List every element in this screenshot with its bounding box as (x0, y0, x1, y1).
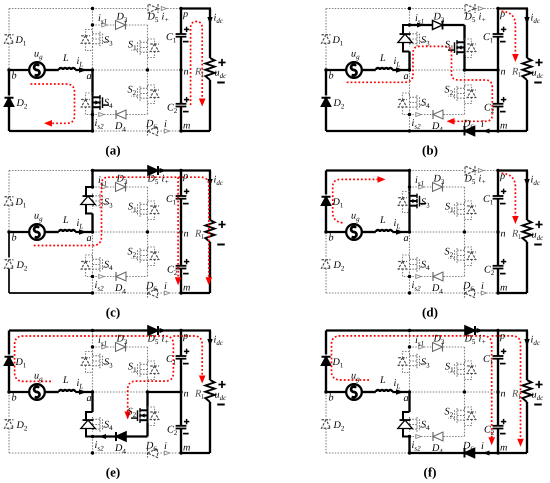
diode D1, panel a (5, 35, 14, 44)
wire: top rail right segment with D5, panel c (93, 169, 148, 171)
diode D1, panel e (5, 357, 14, 366)
wire: S4 source to is2 junction and bottom rail, panel d (409, 272, 411, 277)
wire: left rail upper segment with D1, panel b (325, 9, 327, 33)
output rail with load RL, panel d (526, 171, 528, 221)
svg-text:i: i (481, 441, 484, 452)
is1 junction, panel d (408, 185, 411, 188)
diode D2, panel d (322, 260, 331, 269)
svg-text:S1: S1 (128, 202, 137, 215)
is1 junction, panel f (408, 345, 411, 348)
mid-leg junction, panel c (146, 230, 149, 233)
svg-text:RL: RL (511, 389, 523, 402)
capacitor C2 with polarity marks, panel a (176, 103, 187, 105)
svg-text:L: L (379, 53, 386, 64)
svg-text:S3: S3 (421, 197, 430, 210)
MOSFET S2, panel b (464, 86, 466, 101)
svg-text:is1: is1 (98, 13, 107, 26)
output rail with load RL, panel a (209, 9, 211, 59)
wire: bottom rail left segment, panel a (9, 130, 93, 132)
svg-text:D1: D1 (15, 197, 27, 210)
svg-text:a: a (87, 233, 92, 244)
wire: left rail upper segment with D1, panel f (325, 331, 327, 355)
svg-text:C1: C1 (483, 354, 494, 367)
MOSFET S2, panel d (464, 248, 466, 263)
svg-text:is2: is2 (412, 118, 422, 131)
capacitor C1 with polarity marks, panel c (176, 195, 187, 197)
wire: node a to mid junction, panel e (93, 391, 148, 393)
current arrow i on bottom rail, panel a (164, 129, 169, 133)
mid-leg junction, panel e (146, 390, 149, 393)
top-rail junction, panel d (408, 169, 411, 172)
is2 junction, panel e (91, 435, 94, 438)
body diode of S4, panel c (86, 255, 93, 277)
current arrow i on bottom rail, panel f (483, 451, 490, 456)
wire: top rail left segment, panel c (9, 170, 93, 172)
current arrow i+, panel e (160, 328, 167, 333)
wire: node a to mid junction, panel f (410, 391, 465, 393)
bottom-rail junction, panel e (91, 451, 94, 454)
svg-text:S2: S2 (128, 407, 137, 420)
output rail with load RL, panel c (209, 171, 211, 221)
mid-leg junction, panel f (463, 390, 466, 393)
svg-text:D6: D6 (462, 119, 474, 132)
panel (d) (322, 166, 545, 320)
red current path 2, panel a (191, 22, 203, 106)
body diode of S2, panel b (465, 85, 472, 104)
svg-text:S3: S3 (421, 357, 430, 370)
bottom-rail junction, panel b (408, 129, 411, 132)
current arrow i+, panel b (478, 7, 483, 11)
current arrow is1, panel f (419, 345, 424, 349)
svg-text:L: L (62, 215, 69, 226)
inductor L, panel e (59, 390, 75, 392)
svg-text:udc: udc (532, 390, 545, 403)
node a junction, panel c (91, 230, 94, 233)
node p junction, panel f (496, 329, 499, 332)
MOSFET S1, panel c (147, 202, 149, 217)
body diode of S1, panel c (148, 201, 155, 220)
MOSFET S1, panel b (464, 40, 466, 55)
wire: S2 source down to D4 line, panel c (147, 263, 149, 277)
wire: top rail left segment, panel b (326, 8, 410, 10)
body diode of S4, panel d (403, 255, 410, 277)
wire: bottom rail mid segment with D6, panel d (410, 292, 464, 294)
wire: S2 source down to D4 line, panel a (147, 101, 149, 115)
panel (a) (5, 4, 228, 158)
wire: D3 to S1 drain, panel d (464, 187, 466, 202)
wire: S3 to node a, panel b (408, 52, 410, 71)
body diode of S3, panel f (403, 352, 410, 373)
svg-text:i+: i+ (162, 12, 170, 25)
wire: bottom rail left segment, panel f (326, 452, 410, 454)
wire: left rail upper segment with D1, panel c (8, 171, 10, 195)
inductor L, panel b (376, 68, 392, 70)
wire: bottom rail left segment, panel c (9, 292, 93, 294)
diode D1, panel f (322, 357, 331, 366)
diode D4, panel a (116, 110, 126, 119)
MOSFET S3, panel f (409, 354, 411, 369)
wire: S4 source to is2 junction and bottom rail, panel c (92, 272, 94, 277)
svg-text:S1: S1 (445, 362, 454, 375)
wire: source to inductor, panel f (361, 391, 375, 393)
wire: is2 branch with diode D4, panel c (93, 276, 116, 278)
diode D5, panel a (148, 4, 158, 13)
wire: node b to AC source, panel a (9, 69, 30, 71)
svg-text:D5: D5 (147, 334, 159, 347)
node m junction, panel a (179, 129, 182, 132)
svg-text:S2: S2 (445, 85, 454, 98)
svg-text:D2: D2 (333, 420, 345, 433)
body diode of S2, panel c (148, 247, 155, 266)
body diode of S3 (conducting), panel c (86, 187, 93, 214)
current arrow is2, panel a (99, 113, 104, 117)
MOSFET S2, panel f (464, 408, 466, 423)
svg-text:is1: is1 (415, 13, 424, 26)
svg-text:a: a (404, 71, 409, 82)
wire: top rail left segment, panel d (326, 169, 410, 171)
MOSFET S1, panel d (464, 202, 466, 217)
svg-text:n: n (184, 229, 189, 240)
wire: S2 source down to D4 line, panel d (464, 263, 466, 277)
svg-text:D4: D4 (114, 283, 126, 296)
svg-text:m: m (183, 443, 190, 454)
wire: bottom rail from m to output corner, panel c (181, 292, 210, 294)
MOSFET S3, panel a (92, 32, 94, 47)
diode D2, panel b (322, 98, 331, 107)
wire: is1 branch with diode D3, panel c (93, 186, 116, 188)
wire: left rail lower segment with D2, panel c (8, 232, 10, 258)
svg-text:p: p (499, 171, 505, 182)
wire: bottom rail from m to output corner, panel d (498, 292, 527, 294)
current arrow i on bottom rail, panel d (481, 291, 486, 295)
wire: is2 branch with diode D4, panel d (410, 276, 433, 278)
svg-text:ug: ug (34, 371, 43, 384)
panel (c) (5, 166, 226, 320)
svg-text:m: m (183, 283, 190, 294)
diode D3, panel f (433, 343, 443, 352)
current arrow is1, panel c (102, 185, 107, 189)
body diode of S4 (conducting), panel e (86, 412, 93, 437)
wire: bottom rail from m to output corner, panel b (498, 130, 527, 132)
MOSFET S4, panel b (409, 95, 411, 110)
red current path 2, panel b (502, 11, 516, 54)
svg-text:udc: udc (532, 68, 545, 81)
svg-text:is2: is2 (95, 280, 105, 293)
wire: D3 to S1 drain, panel a (147, 25, 149, 40)
capacitor C2 with polarity marks, panel d (493, 265, 504, 267)
diode D6, panel f (465, 449, 475, 458)
svg-text:S3: S3 (104, 197, 113, 210)
mid-leg junction, panel b (463, 68, 466, 71)
wire: node a down to S4, panel c (92, 232, 94, 257)
minus sign of udc, panel d (534, 244, 542, 246)
svg-text:i+: i+ (479, 174, 487, 187)
inductor L, panel a (59, 68, 75, 70)
wire: bottom rail from m to output corner, panel e (181, 452, 210, 454)
node b junction, panel b (324, 68, 327, 71)
wire: is2 branch with diode D4, panel f (410, 436, 433, 438)
wire: S1 source to mid junction, panel e (147, 377, 149, 392)
current arrow i on bottom rail, panel e (164, 451, 169, 455)
current arrow is2, panel d (416, 275, 421, 279)
diode D6, panel a (148, 127, 158, 136)
diode D1, panel c (5, 197, 14, 206)
svg-text:udc: udc (215, 390, 228, 403)
is2 junction, panel c (91, 275, 94, 278)
svg-text:(d): (d) (422, 305, 438, 320)
diode D2, panel a (5, 98, 14, 107)
svg-text:(e): (e) (106, 465, 120, 480)
wire: upper switch-leg drain segment, panel e (92, 331, 94, 348)
svg-text:udc: udc (532, 230, 545, 243)
wire: bottom rail mid segment with D6, panel e (93, 452, 147, 454)
bottom-rail junction, panel d (408, 291, 411, 294)
wire: is1 branch with diode D3, panel f (410, 346, 433, 348)
output rail with load RL, panel f (526, 331, 528, 381)
svg-text:i: i (481, 119, 484, 130)
capacitor C1 with polarity marks, panel e (176, 355, 187, 357)
node p junction, panel a (179, 7, 182, 10)
MOSFET S2, panel c (147, 248, 149, 263)
wire: upper switch-leg drain segment, panel d (408, 171, 410, 188)
AC source ug, panel b (346, 62, 362, 78)
wire: left rail lower segment with D2, panel d (325, 232, 327, 258)
diode D2, panel f (322, 420, 331, 429)
minus sign of udc, panel a (217, 82, 225, 84)
body diode of S1, panel f (465, 361, 472, 380)
minus sign of udc, panel b (534, 82, 542, 84)
node m junction, panel e (179, 451, 182, 454)
body diode of S1, panel e (148, 361, 155, 380)
svg-text:a: a (87, 71, 92, 82)
svg-text:n: n (184, 389, 189, 400)
svg-text:D6: D6 (145, 281, 157, 294)
current arrow idc, panel e (207, 339, 212, 347)
wire: D3 to S1 drain, panel c (147, 187, 149, 202)
wire: bottom rail left segment, panel d (326, 292, 410, 294)
diode D5, panel b (465, 4, 475, 13)
svg-text:D6: D6 (145, 119, 157, 132)
current arrow idc, panel b (524, 17, 529, 25)
svg-text:D5: D5 (147, 174, 159, 187)
node b junction, panel d (324, 230, 327, 233)
wire: S4 source to is2 junction and bottom rail, panel a (91, 110, 93, 115)
svg-text:i: i (164, 119, 167, 130)
node n junction, panel e (179, 390, 182, 393)
svg-text:S3: S3 (104, 35, 113, 48)
capacitor C1 with polarity marks, panel f (493, 355, 504, 357)
svg-text:D5: D5 (147, 12, 159, 25)
AC source ug, panel a (29, 62, 45, 78)
body diode of S2, panel a (148, 85, 155, 104)
svg-text:D1: D1 (15, 357, 27, 370)
svg-text:S3: S3 (104, 357, 113, 370)
svg-text:a: a (404, 393, 409, 404)
current arrow i on bottom rail, panel c (164, 291, 169, 295)
body diode of S3, panel a (86, 30, 93, 51)
svg-text:S4: S4 (421, 98, 430, 111)
wire: is1 branch with diode D3, panel e (93, 346, 116, 348)
wire: mid junction to S2 drain, panel c (147, 232, 149, 248)
node a junction, panel d (408, 230, 411, 233)
top-rail junction, panel c (91, 169, 94, 172)
wire: inductor to node a with iL arrow, panel c (75, 231, 92, 233)
is2 junction, panel b (408, 113, 411, 116)
panel (e) (5, 326, 228, 480)
wire: mid junction to node n, panel b (465, 69, 499, 71)
svg-text:C1: C1 (166, 354, 177, 367)
svg-text:ug: ug (351, 211, 360, 224)
svg-text:D4: D4 (431, 121, 443, 134)
svg-text:m: m (183, 121, 190, 132)
wire: node a to mid junction, panel b (410, 69, 465, 71)
wire: mid junction to S2 drain, panel f (464, 392, 466, 408)
svg-text:i+: i+ (162, 334, 170, 347)
svg-text:b: b (329, 233, 334, 244)
wire: node b to AC source, panel f (326, 391, 347, 393)
svg-text:D2: D2 (16, 98, 28, 111)
diode D5, panel e (148, 326, 158, 335)
is1 junction, panel b (408, 23, 411, 26)
node a junction, panel a (91, 68, 94, 71)
wire: upper switch-leg drain segment, panel c (91, 171, 93, 188)
wire: upper switch-leg drain segment, panel a (92, 9, 94, 26)
svg-text:D2: D2 (16, 420, 28, 433)
wire: source to inductor, panel d (361, 231, 375, 233)
wire: is1 branch with diode D3, panel a (93, 24, 116, 26)
wire: inductor to node a with iL arrow, panel a (75, 69, 92, 71)
wire: mid junction to node n, panel d (465, 231, 499, 233)
wire: S2 source down to D4 line, panel e (146, 423, 148, 437)
wire: bottom rail left segment, panel e (9, 452, 93, 454)
capacitor C1 with polarity marks, panel d (493, 195, 504, 197)
diode D5, panel d (465, 166, 475, 175)
red current path 2, panel e (173, 336, 202, 376)
wire: left rail lower segment with D2, panel a (8, 70, 10, 96)
MOSFET S4, panel d (409, 257, 411, 272)
plus sign of udc, panel e (218, 384, 225, 386)
diode D4, panel e (116, 432, 126, 441)
wire: left rail lower segment with D2, panel f (325, 392, 327, 418)
svg-text:S4: S4 (421, 420, 430, 433)
svg-text:is2: is2 (412, 280, 422, 293)
svg-text:(a): (a) (105, 143, 120, 158)
wire: top rail right segment with D5, panel e (93, 329, 148, 331)
wire: node a to mid junction, panel c (93, 231, 148, 233)
body diode of S1, panel b (465, 39, 472, 58)
svg-text:is1: is1 (415, 175, 424, 188)
svg-text:idc: idc (214, 335, 224, 348)
wire: node a to mid junction, panel a (93, 69, 148, 71)
wire: mid junction to S2 drain, panel e (146, 392, 148, 408)
svg-text:(c): (c) (106, 305, 120, 320)
wire: D3 to S1 drain, panel b (463, 25, 465, 40)
svg-text:D1: D1 (332, 357, 344, 370)
wire: D3 to S1 drain, panel e (147, 347, 149, 362)
svg-text:D3: D3 (116, 12, 128, 25)
inductor L, panel c (59, 230, 75, 232)
wire: capacitor rail p-n-m, panel e (180, 331, 182, 357)
body diode of S4, panel b (403, 93, 410, 115)
svg-text:p: p (499, 9, 505, 20)
svg-text:m: m (500, 443, 507, 454)
diode D4, panel d (433, 272, 443, 281)
diode D3, panel d (433, 183, 443, 192)
svg-text:D5: D5 (464, 12, 476, 25)
diode D3, panel c (116, 183, 126, 192)
node m junction, panel c (179, 291, 182, 294)
svg-text:L: L (379, 215, 386, 226)
svg-text:C1: C1 (166, 194, 177, 207)
svg-text:b: b (12, 233, 17, 244)
svg-text:D1: D1 (15, 35, 27, 48)
svg-text:D4: D4 (114, 121, 126, 134)
wire: S3 to node a, panel c (91, 214, 93, 233)
output rail with load RL, panel e (209, 331, 211, 381)
node p junction, panel c (179, 169, 182, 172)
bottom-rail junction, panel c (91, 291, 94, 294)
wire: bottom rail mid segment with D6, panel f (410, 452, 464, 454)
wire: top rail right segment with D5, panel d (410, 170, 465, 172)
wire: S1 source to mid junction, panel c (147, 217, 149, 232)
svg-text:p: p (182, 9, 188, 20)
svg-text:C1: C1 (166, 32, 177, 45)
inductor L, panel d (376, 230, 392, 232)
svg-text:b: b (329, 71, 334, 82)
node a junction, panel b (408, 68, 411, 71)
red current path 2, panel c (177, 177, 179, 277)
body diode of S3 (conducting), panel b (403, 25, 410, 52)
node n junction, panel d (496, 230, 499, 233)
capacitor C2 with polarity marks, panel e (176, 425, 187, 427)
capacitor C2 with polarity marks, panel c (176, 265, 187, 267)
node b junction, panel f (324, 390, 327, 393)
panel (f) (322, 326, 545, 480)
svg-text:D1: D1 (332, 197, 344, 210)
svg-text:p: p (182, 171, 188, 182)
current arrow i+, panel d (478, 169, 483, 173)
wire: mid junction to S2 drain, panel d (464, 232, 466, 248)
diode D6, panel b (465, 127, 475, 136)
MOSFET S3 channel (off), panel c (92, 194, 94, 209)
wire: node b to AC source, panel b (326, 69, 347, 71)
svg-text:D6: D6 (462, 281, 474, 294)
capacitor C2 with polarity marks, panel b (493, 103, 504, 105)
wire: inductor to node a with iL arrow, panel d (392, 231, 409, 233)
wire: left rail upper segment with D1, panel d (325, 171, 327, 195)
wire: mid junction to node n, panel e (148, 391, 182, 393)
wire: is2 branch with diode D4, panel b (410, 114, 433, 116)
svg-text:C1: C1 (483, 194, 494, 207)
current arrow i+, panel f (477, 328, 484, 333)
svg-text:iL: iL (77, 56, 84, 69)
MOSFET S1, panel e (147, 362, 149, 377)
node n junction, panel c (179, 230, 182, 233)
red current path 2, panel f (492, 336, 521, 439)
capacitor C2 with polarity marks, panel f (493, 425, 504, 427)
wire: left rail lower segment with D2, panel e (8, 392, 10, 418)
svg-text:ug: ug (34, 49, 43, 62)
wire: node b to AC source, panel d (326, 231, 347, 233)
svg-text:S4: S4 (104, 98, 113, 111)
inductor L, panel f (376, 390, 392, 392)
svg-text:D1: D1 (332, 35, 344, 48)
body diode of S3, panel d (403, 192, 410, 213)
current arrow is1, panel a (102, 23, 107, 27)
svg-text:n: n (184, 67, 189, 78)
svg-text:(b): (b) (422, 143, 438, 158)
svg-text:D5: D5 (464, 334, 476, 347)
